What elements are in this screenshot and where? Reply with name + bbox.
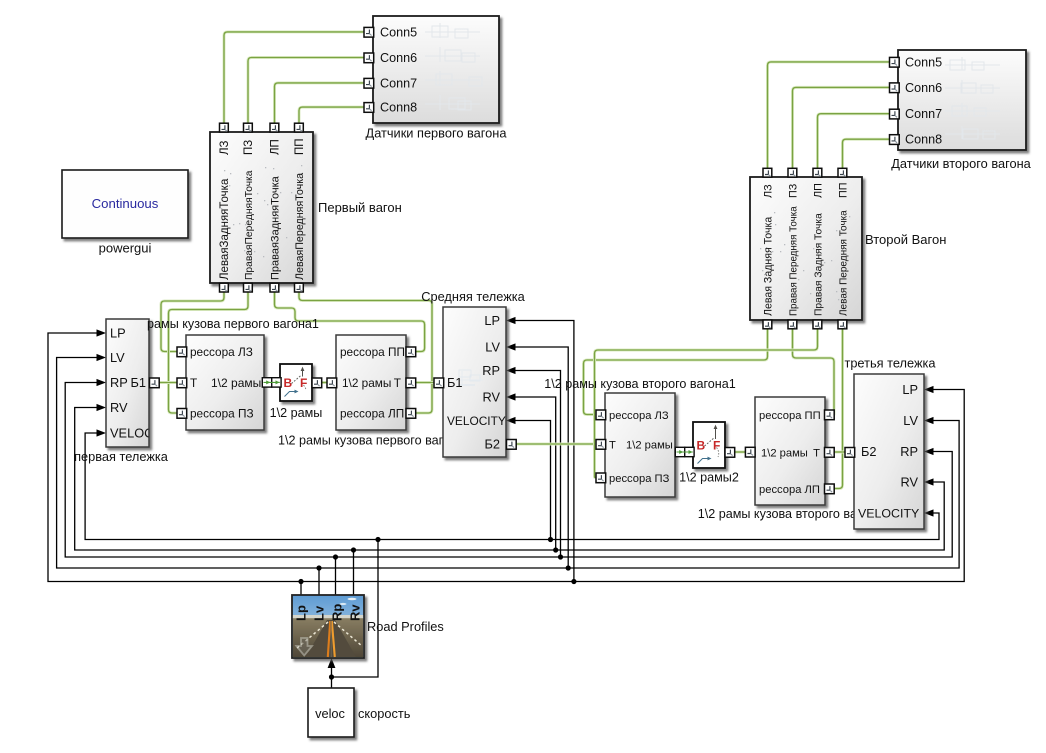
svg-text:ПЗ: ПЗ — [787, 184, 799, 198]
svg-text:Lv: Lv — [312, 605, 327, 621]
svg-text:рессора ЛЗ: рессора ЛЗ — [190, 345, 253, 359]
svg-text:RV: RV — [482, 390, 500, 405]
svg-text:LV: LV — [903, 413, 918, 428]
block 1\2 рамы (B-F joint) — [280, 364, 312, 401]
svg-text:ЛЗ: ЛЗ — [762, 184, 774, 198]
wire Второй Вагон ПЗ → Conn6 — [793, 87, 890, 168]
wire Второй Вагон ЛЗ → рессора ЛЗ2 — [584, 329, 768, 415]
wire Road Profiles Lp output riser — [300, 582, 302, 596]
svg-text:RV: RV — [110, 400, 128, 415]
svg-text:ЛП: ЛП — [270, 139, 282, 155]
arrow into Средняя тележка RV — [506, 393, 516, 400]
svg-text:1\2 рамы кузова второго вагон: 1\2 рамы кузова второго вагона1 — [544, 377, 736, 391]
svg-text:Rv: Rv — [348, 604, 363, 621]
port рессора блок2 T-in — [327, 378, 337, 388]
arrow into Средняя тележка LP — [506, 317, 516, 324]
junction dots on signal buses — [298, 537, 576, 680]
wire рессора ПП block T → Средняя Б1 — [415, 381, 434, 384]
svg-text:RP: RP — [900, 444, 918, 459]
wire Lv bus: Road Profiles Lv → LV ports — [57, 358, 960, 569]
wire рессора ПП2 блок T → третья Б2 — [834, 451, 846, 454]
wire Первый вагон ПП → Conn8 — [299, 107, 364, 123]
svg-text:Conn6: Conn6 — [905, 81, 942, 95]
port Датчики второго вагона Conn8 — [890, 135, 900, 145]
wire riser to Средняя RV — [515, 397, 556, 550]
svg-text:Правая Передняя Точка: Правая Передняя Точка — [788, 206, 799, 316]
block третья тележка — [854, 374, 924, 529]
port Первый вагон bottom 2 — [244, 283, 253, 292]
svg-text:ЛЗ: ЛЗ — [219, 140, 231, 155]
svg-text:скорость: скорость — [358, 706, 411, 721]
port рессора блок2 ЛП — [406, 409, 416, 419]
svg-text:LP: LP — [902, 382, 918, 397]
svg-text:Conn8: Conn8 — [905, 133, 942, 147]
arrow into Средняя тележка RP — [506, 367, 516, 374]
wire Road Profiles Rp output riser — [335, 557, 337, 595]
arrow into первая тележка RP — [97, 379, 107, 386]
svg-text:рессора ЛЗ: рессора ЛЗ — [609, 410, 669, 422]
block рессора ЛЗ / 1\2 рамы / рессора ПЗ (первый вагон) — [186, 335, 264, 430]
wire riser to Средняя RP — [515, 371, 561, 558]
wire Второй Вагон ПП → рессора ЛП2 — [834, 329, 843, 489]
port рессора блок1 ЛЗ — [177, 347, 187, 357]
svg-text:Conn8: Conn8 — [380, 101, 417, 115]
wire Первый вагон ПЗ → Conn6 — [248, 58, 364, 124]
svg-text:третья тележка: третья тележка — [844, 356, 936, 371]
svg-text:Conn5: Conn5 — [380, 25, 417, 39]
port Первый вагон top 1 — [220, 123, 229, 132]
svg-text:Правая Задняя Точка: Правая Задняя Точка — [813, 213, 824, 316]
wire Второй Вагон ПП → Conn8 — [843, 139, 890, 168]
port Второй Вагон top 3 — [813, 168, 822, 177]
svg-text:VELOCITY: VELOCITY — [858, 507, 919, 521]
svg-text:LP: LP — [110, 326, 126, 341]
svg-text:Б2: Б2 — [861, 444, 877, 459]
block veloc (From workspace) — [308, 688, 354, 737]
wire veloc branch → VELOCITY bus — [332, 540, 379, 678]
port Датчики второго вагона Conn6 — [890, 83, 900, 93]
icon 1\2 рамы joint sketch — [284, 367, 308, 397]
port рессора блок3 ПЗ — [596, 473, 606, 483]
port Первый вагон top 3 — [270, 123, 279, 132]
arrow into третья тележка RV — [924, 478, 934, 485]
arrow into третья тележка LV — [924, 417, 934, 424]
port рессора блок1 ПЗ — [177, 409, 187, 419]
svg-text:рамы кузова первого вагона1: рамы кузова первого вагона1 — [147, 317, 319, 331]
wire Второй Вагон ЛП → Conn7 — [818, 114, 890, 169]
svg-text:1\2 рамы кузова первого вагона: 1\2 рамы кузова первого вагона — [278, 434, 464, 448]
block Датчики первого вагона — [373, 16, 499, 123]
wire 1\2 рамы2 → left T port — [735, 451, 746, 454]
svg-text:LV: LV — [485, 340, 500, 355]
block рессора ЛЗ / 1\2 рамы / рессора ПЗ (второй вагон) — [605, 393, 675, 497]
svg-text:Датчики второго вагона: Датчики второго вагона — [891, 156, 1031, 171]
svg-text:Road Profiles: Road Profiles — [367, 619, 444, 634]
block Средняя тележка — [443, 307, 506, 457]
svg-text:B: B — [284, 376, 293, 390]
svg-text:1\2 рамы2: 1\2 рамы2 — [679, 471, 739, 485]
svg-text:рессора ПП: рессора ПП — [340, 345, 405, 359]
svg-text:Conn7: Conn7 — [905, 107, 942, 121]
port 1\2 рамы F-out — [312, 378, 322, 388]
arrow into первая тележка LP — [97, 329, 107, 336]
block 1\2 рамы2 (B-F joint) — [693, 422, 725, 468]
wire Rp bus: Road Profiles Rp → RP ports — [65, 383, 952, 558]
svg-text:Conn6: Conn6 — [380, 51, 417, 65]
port рессора блок2 ПП — [406, 347, 416, 357]
svg-text:RP: RP — [110, 375, 128, 390]
port рессора блок1 T — [177, 378, 187, 388]
svg-text:RV: RV — [900, 475, 918, 490]
port Второй Вагон bottom 4 — [838, 320, 847, 329]
svg-text:T: T — [813, 448, 820, 460]
port Первый вагон bottom 3 — [270, 283, 279, 292]
svg-text:VELOCITY: VELOCITY — [110, 426, 174, 441]
icon 1\2 рамы2 joint sketch — [697, 425, 721, 464]
svg-text:ПраваяЗадняяТочка: ПраваяЗадняяТочка — [270, 175, 282, 280]
svg-text:1\2 рамы: 1\2 рамы — [211, 376, 261, 390]
wire Rv bus: Road Profiles Rv → RV ports — [75, 408, 945, 551]
wire Lp bus: Road Profiles Lp → LP ports — [48, 333, 964, 582]
port Датчики первого вагона Conn7 — [364, 78, 374, 88]
wire riser to Средняя LP — [515, 321, 574, 582]
svg-text:1\2 рамы: 1\2 рамы — [761, 448, 808, 460]
port pair рессора блок1 T-out / 1\2 рамы B (connected, green arrows) — [262, 378, 281, 387]
svg-text:Средняя тележка: Средняя тележка — [421, 289, 525, 304]
svg-text:ПЗ: ПЗ — [243, 140, 255, 155]
wire первая тележка Б1 → T — [159, 381, 178, 384]
svg-text:F: F — [300, 376, 307, 390]
wire 1\2 рамы → left T port — [321, 381, 327, 384]
block Road Profiles — [292, 595, 364, 658]
block Первый вагон — [210, 132, 313, 283]
port Второй Вагон top 1 — [763, 168, 772, 177]
port рессора блок4 T — [825, 448, 835, 458]
wire Первый вагон ЛП → рессора ПП — [275, 292, 425, 352]
arrow into Средняя тележка LV — [506, 343, 516, 350]
svg-text:B: B — [697, 439, 706, 453]
svg-text:1\2 рамы: 1\2 рамы — [342, 376, 391, 390]
svg-text:ПраваяПередняяТочка: ПраваяПередняяТочка — [244, 170, 255, 280]
port рессора блок3 ЛЗ — [596, 410, 606, 420]
port Датчики первого вагона Conn5 — [364, 27, 374, 37]
port Второй Вагон bottom 1 — [763, 320, 772, 329]
wire riser to Средняя VELOCITY — [515, 421, 551, 540]
svg-text:veloc: veloc — [315, 706, 345, 721]
svg-text:Conn7: Conn7 — [380, 76, 417, 90]
svg-text:Rp: Rp — [330, 604, 345, 621]
svg-text:F: F — [713, 439, 720, 453]
arrow into первая тележка RV — [97, 404, 107, 411]
wire Первый вагон ЛП → Conn7 — [275, 83, 365, 124]
port первая тележка Б1 — [150, 378, 160, 388]
wire Road Profiles Rv output riser — [353, 550, 355, 595]
svg-text:рессора ЛП: рессора ЛП — [759, 484, 820, 496]
port Первый вагон bottom 1 — [220, 283, 229, 292]
port Первый вагон top 4 — [295, 123, 304, 132]
wire Road Profiles Lv output riser — [318, 568, 320, 595]
arrow into первая тележка VEL — [97, 429, 107, 436]
block powergui — [62, 170, 188, 238]
wire veloc → Road Profiles input — [331, 668, 333, 689]
wire Второй Вагон ПЗ → рессора ПП2 — [793, 329, 835, 415]
block первая тележка — [106, 319, 149, 447]
svg-text:Левая Задняя Точка: Левая Задняя Точка — [762, 217, 774, 316]
port рессора блок4 ЛП — [825, 484, 835, 494]
wire Первый вагон ЛЗ → рессора ЛЗ — [161, 292, 224, 352]
svg-text:Датчики первого вагона: Датчики первого вагона — [366, 126, 508, 141]
wire Второй Вагон ЛП → рессора ПЗ2 — [595, 329, 818, 478]
port Первый вагон bottom 4 — [295, 283, 304, 292]
port Датчики второго вагона Conn5 — [890, 57, 900, 67]
port третья тележка Б2 — [845, 448, 855, 458]
svg-text:LV: LV — [110, 350, 125, 365]
svg-text:Conn5: Conn5 — [905, 55, 942, 69]
svg-text:Б1: Б1 — [447, 375, 463, 390]
svg-text:1\2 рамы: 1\2 рамы — [270, 406, 323, 420]
port Средняя тележка Б2 — [507, 440, 517, 450]
svg-text:T: T — [394, 376, 401, 390]
port Датчики первого вагона Conn8 — [364, 103, 374, 113]
port рессора блок3 T — [596, 440, 606, 450]
port рессора блок4 T-in — [745, 447, 755, 457]
wire Второй Вагон ЛЗ → Conn5 — [768, 62, 890, 169]
arrow into первая тележка LV — [97, 354, 107, 361]
svg-text:1\2 рамы: 1\2 рамы — [626, 440, 673, 452]
svg-text:LP: LP — [484, 313, 500, 328]
arrow into третья тележка RP — [924, 448, 934, 455]
port рессора блок4 ПП — [825, 410, 835, 420]
svg-text:Б1: Б1 — [130, 375, 146, 390]
svg-text:Первый вагон: Первый вагон — [318, 200, 402, 215]
wire Первый вагон ЛЗ → Conn5 — [224, 32, 364, 124]
svg-text:рессора ПЗ: рессора ПЗ — [190, 407, 254, 421]
port Второй Вагон bottom 2 — [788, 320, 797, 329]
port Первый вагон top 2 — [244, 123, 253, 132]
arrow into третья тележка VEL — [924, 509, 934, 516]
svg-text:RP: RP — [482, 363, 500, 378]
svg-text:Второй Вагон: Второй Вагон — [865, 232, 946, 247]
svg-text:T: T — [190, 376, 197, 390]
svg-text:рессора ПП: рессора ПП — [759, 410, 821, 422]
svg-text:ЛП: ЛП — [812, 183, 824, 198]
svg-text:рессора ЛП: рессора ЛП — [340, 407, 404, 421]
svg-text:первая тележка: первая тележка — [74, 449, 169, 464]
svg-text:powergui: powergui — [99, 241, 152, 256]
wire Первый вагон ПП → рессора ЛП — [299, 292, 432, 413]
svg-text:ЛеваяПередняяТочка: ЛеваяПередняяТочка — [294, 173, 306, 280]
port Второй Вагон bottom 3 — [813, 320, 822, 329]
port Средняя тележка Б1 — [434, 378, 444, 388]
svg-text:T: T — [609, 440, 616, 452]
svg-text:Б2: Б2 — [484, 437, 500, 452]
port рессора блок2 T — [406, 378, 416, 388]
wire riser to Средняя LV — [515, 347, 568, 568]
arrow into Средняя тележка VEL — [506, 417, 516, 424]
svg-text:ЛеваяЗадняяТочка: ЛеваяЗадняяТочка — [219, 178, 231, 280]
svg-text:ПП: ПП — [294, 138, 306, 155]
port Второй Вагон top 2 — [788, 168, 797, 177]
svg-text:VELOCITY: VELOCITY — [447, 414, 506, 428]
arrow into третья тележка LP — [924, 386, 934, 393]
port Датчики первого вагона Conn6 — [364, 53, 374, 63]
svg-text:Левая Передняя Точка: Левая Передняя Точка — [838, 210, 849, 316]
svg-text:ПП: ПП — [837, 182, 849, 198]
wire Средняя Б2 → T рессора ЛЗ блок — [516, 443, 597, 446]
block рессора ПП / 1\2 рамы / рессора ЛП (первый вагон) — [336, 335, 406, 430]
svg-text:рессора ПЗ: рессора ПЗ — [609, 473, 670, 485]
svg-text:Continuous: Continuous — [92, 196, 159, 211]
port pair рессора блок3 T-out / 1\2 рамы2 B (connected, green arrows) — [675, 447, 694, 456]
block Датчики второго вагона — [898, 50, 1026, 150]
svg-text:Lp: Lp — [294, 605, 309, 621]
block рессора ПП / 1\2 рамы / рессора ЛП (второй вагон) — [755, 397, 825, 505]
port Второй Вагон top 4 — [838, 168, 847, 177]
arrow into Road Profiles velocity input — [328, 658, 336, 668]
block Второй Вагон — [750, 177, 862, 320]
port 1\2 рамы2 F-out — [725, 448, 735, 458]
wire Первый вагон ПЗ → рессора ПЗ — [169, 292, 249, 413]
wire VELOCITY bus: veloc → VELOCITY ports — [85, 433, 939, 540]
port Датчики второго вагона Conn7 — [890, 109, 900, 119]
